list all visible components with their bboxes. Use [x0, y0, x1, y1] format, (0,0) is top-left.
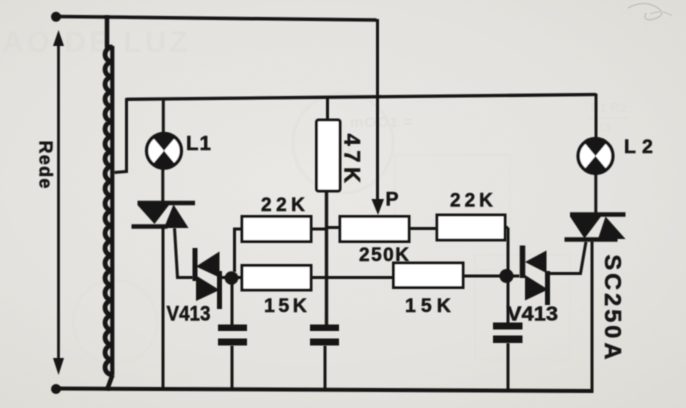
svg-text:L1: L1 — [186, 132, 212, 155]
svg-text:V413: V413 — [167, 303, 211, 326]
svg-text:250K: 250K — [359, 245, 410, 266]
svg-text:mOO1 =: mOO1 = — [350, 114, 414, 131]
svg-text:Rede: Rede — [36, 141, 56, 190]
svg-text:P: P — [386, 189, 399, 211]
svg-text:22K: 22K — [261, 195, 309, 216]
svg-text:SC250: SC250 — [600, 255, 626, 342]
svg-text:15K: 15K — [264, 295, 310, 317]
svg-text:47K: 47K — [340, 134, 365, 188]
svg-text:A: A — [600, 343, 626, 360]
svg-text:V413: V413 — [507, 304, 558, 326]
svg-text:AO DE LUZ: AO DE LUZ — [2, 26, 191, 59]
svg-text:22K: 22K — [450, 191, 497, 212]
svg-text:L 2: L 2 — [624, 136, 653, 158]
svg-text:15K: 15K — [405, 295, 456, 317]
